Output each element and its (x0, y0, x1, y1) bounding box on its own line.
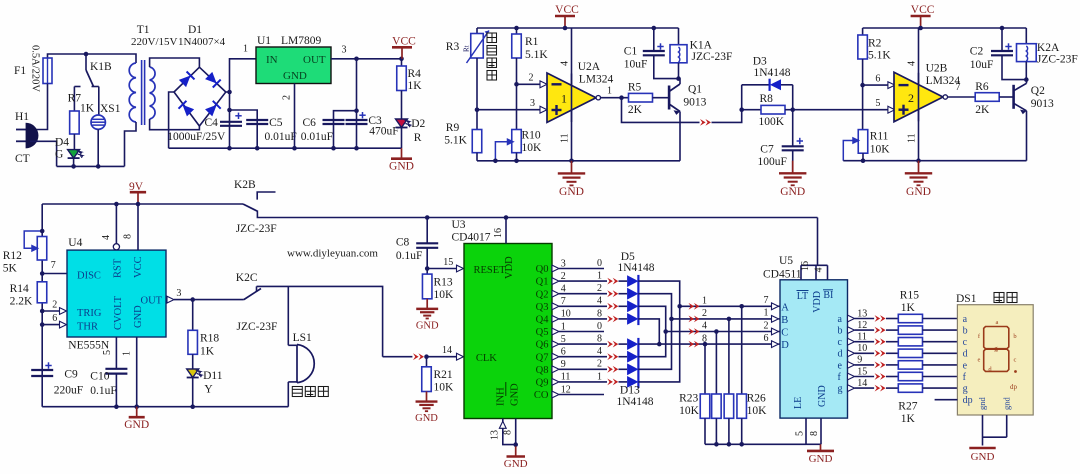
ground GND (555 module) (136, 407, 138, 418)
ground GND (module 1) (571, 161, 573, 174)
svg-text:1: 1 (561, 321, 566, 332)
svg-text:JZC-23F: JZC-23F (692, 51, 733, 63)
svg-text:g: g (838, 384, 843, 395)
svg-text:R1: R1 (525, 36, 539, 48)
LED D11 (yellow) (187, 369, 199, 378)
svg-text:3: 3 (342, 45, 347, 56)
svg-text:Rt: Rt (463, 45, 471, 52)
transformer T1 core (141, 60, 143, 125)
wire: B row (672, 318, 772, 320)
svg-text:CVOLT: CVOLT (113, 295, 124, 330)
svg-text:G: G (55, 149, 63, 161)
bridge diode bottom-left (179, 101, 195, 117)
node: OUT / R4 / VCC (399, 57, 404, 62)
wire: CLK into U3 (427, 356, 457, 358)
relay contact K2C (244, 289, 261, 300)
svg-text:1K: 1K (80, 103, 95, 115)
svg-text:4: 4 (101, 235, 112, 240)
resistor R14 2.2K (37, 282, 47, 303)
bridge diode top-right (205, 72, 221, 88)
svg-text:11: 11 (857, 332, 867, 343)
svg-text:12: 12 (857, 320, 867, 331)
svg-text:4: 4 (597, 346, 602, 357)
capacitor C7 100uF (792, 110, 794, 147)
svg-text:R26: R26 (747, 393, 766, 405)
node: XS1 branch / bus (96, 164, 101, 169)
power VCC (regulator output) (401, 47, 403, 59)
svg-text:4: 4 (597, 296, 602, 307)
resistor R7 1K (70, 111, 80, 134)
wire: pulldown common to U5 ground (705, 443, 806, 445)
svg-text:12: 12 (561, 384, 571, 395)
svg-text:C5: C5 (269, 117, 283, 129)
svg-text:0.1uF: 0.1uF (396, 250, 423, 262)
svg-text:C7: C7 (760, 144, 774, 156)
svg-text:4: 4 (560, 61, 571, 66)
svg-text:8: 8 (597, 308, 602, 319)
svg-text:CT: CT (15, 153, 30, 165)
svg-text:10K: 10K (434, 382, 455, 394)
svg-text:Q7: Q7 (536, 352, 549, 363)
svg-text:R2: R2 (868, 38, 882, 50)
wire: Q1/Q9 to A column (638, 281, 679, 382)
wire: Q3/Q7 to C column (638, 306, 665, 356)
svg-text:INH: INH (496, 387, 507, 406)
potentiometer R11 10K (858, 130, 868, 154)
svg-text:Q9: Q9 (536, 378, 549, 389)
svg-text:9: 9 (561, 359, 566, 370)
svg-text:7: 7 (561, 296, 566, 307)
svg-text:g: g (963, 384, 968, 395)
transistor Q2 9013 (1012, 85, 1015, 109)
svg-text:2K: 2K (975, 104, 990, 116)
svg-text:1N4148: 1N4148 (618, 262, 655, 274)
svg-text:K2C: K2C (236, 272, 258, 284)
svg-text:10: 10 (561, 309, 571, 320)
svg-text:JZC-23F: JZC-23F (1037, 54, 1078, 66)
wire: RST pin with bubble (115, 204, 117, 244)
wire: link to U2B +input (793, 109, 889, 111)
svg-text:1: 1 (561, 92, 567, 106)
capacitor C9 220uF (31, 369, 53, 371)
svg-text:10K: 10K (679, 405, 700, 417)
wire: D row (Q6) (638, 343, 771, 345)
svg-text:C9: C9 (64, 369, 78, 381)
svg-text:R5: R5 (628, 82, 642, 94)
wire: XS1 to bus (97, 129, 99, 166)
node: OUT / R18 (190, 297, 195, 302)
svg-text:e: e (838, 360, 843, 371)
node: RESET (425, 266, 430, 271)
wire: -input U2A (517, 83, 542, 85)
wire: CVOLT pin to C10 (115, 337, 117, 369)
svg-text:b: b (963, 326, 968, 337)
wire: primary bottom lead (125, 122, 137, 166)
svg-text:1K: 1K (200, 346, 215, 358)
wire: GND pin 1 (136, 337, 138, 407)
node: D4 branch / bus (71, 164, 76, 169)
svg-text:1: 1 (702, 296, 707, 307)
node: -input A (514, 82, 519, 87)
wire: C6 branch (334, 111, 357, 149)
svg-text:4: 4 (702, 321, 707, 332)
svg-text:D2: D2 (411, 118, 425, 130)
svg-text:JZC-23F: JZC-23F (237, 321, 278, 333)
diode D3 1N4148 (742, 84, 770, 86)
wire: 9V rail (42, 203, 243, 205)
wire: R4 to D2 (401, 91, 403, 120)
svg-text:C4: C4 (205, 117, 219, 129)
svg-text:RESET: RESET (474, 265, 507, 276)
resistor R21 10K (426, 357, 428, 367)
svg-text:www.diyleyuan.com: www.diyleyuan.com (287, 248, 378, 260)
bridge diode bottom-right (205, 101, 221, 117)
wire: C4 branch (229, 92, 231, 148)
svg-text:VDD: VDD (812, 291, 823, 313)
svg-text:3: 3 (176, 288, 181, 299)
capacitor C10 0.1uF (105, 368, 127, 370)
svg-text:LM7809: LM7809 (281, 35, 322, 47)
svg-text:Q0: Q0 (536, 264, 549, 275)
svg-text:13: 13 (490, 430, 501, 440)
svg-text:16: 16 (493, 228, 504, 238)
node: link input (739, 107, 744, 112)
ground GND (module 2) (918, 161, 920, 174)
svg-text:GND: GND (817, 385, 828, 407)
svg-text:Q5: Q5 (536, 327, 549, 338)
svg-text:R6: R6 (975, 81, 989, 93)
svg-text:1K: 1K (901, 413, 916, 425)
capacitor C1 10uF (652, 26, 657, 31)
display DS1 (7-seg) (957, 305, 1033, 415)
svg-text:a: a (963, 314, 968, 325)
svg-text:1: 1 (597, 371, 602, 382)
svg-text:LT: LT (797, 291, 808, 302)
svg-text:R21: R21 (434, 369, 453, 381)
svg-text:6: 6 (764, 333, 769, 344)
svg-text:10K: 10K (870, 144, 891, 156)
relay contact K1B (84, 52, 89, 57)
svg-text:CD4017: CD4017 (452, 232, 491, 244)
svg-text:dp: dp (963, 395, 973, 406)
U5 BCD inputs (772, 303, 779, 310)
svg-text:C8: C8 (396, 237, 410, 249)
wire: R6 to Q2 base (999, 96, 1013, 98)
svg-text:Y: Y (204, 384, 213, 396)
resistor R2 5.1K (862, 28, 864, 35)
ground GND (R21) (426, 392, 428, 402)
svg-text:220V/15V: 220V/15V (131, 36, 178, 48)
svg-text:XS1: XS1 (100, 103, 121, 115)
svg-text:8: 8 (809, 431, 820, 436)
wire: bridge minus to ground rail (169, 92, 174, 148)
svg-text:GND: GND (971, 451, 995, 463)
svg-text:5.1K: 5.1K (868, 50, 891, 62)
svg-text:K1B: K1B (90, 61, 112, 73)
op-amp U2B LM324 (894, 72, 943, 121)
wire: U1 GND pin (294, 84, 296, 149)
wire: U2A output (601, 97, 629, 99)
svg-text:2: 2 (702, 308, 707, 319)
svg-text:TRIG: TRIG (77, 308, 102, 319)
svg-text:10uF: 10uF (624, 59, 648, 71)
svg-text:8: 8 (597, 334, 602, 345)
svg-text:8: 8 (123, 234, 134, 239)
svg-text:GND: GND (415, 413, 438, 424)
svg-text:D: D (781, 340, 789, 351)
svg-text:R15: R15 (900, 290, 919, 302)
svg-text:7: 7 (956, 82, 961, 93)
svg-text:DS1: DS1 (956, 293, 977, 305)
wire: module2 VCC bus (863, 27, 1027, 29)
thermistor R3 (476, 28, 478, 34)
wire: AC top bus (48, 54, 137, 63)
wire: dp row (935, 399, 958, 401)
wire: K1B to R7 (73, 87, 75, 112)
red arrows + labels: BCD rows (689, 303, 700, 310)
potentiometer R12 5K (37, 237, 47, 261)
svg-text:9013: 9013 (683, 97, 706, 109)
wire: K2C contact line (257, 286, 383, 356)
svg-text:C1: C1 (624, 46, 638, 58)
svg-text:Q3: Q3 (536, 302, 549, 313)
svg-text:gnd: gnd (977, 397, 987, 411)
resistor R9 5.1K (472, 130, 482, 153)
wire: left rail (41, 204, 43, 407)
svg-text:2: 2 (282, 95, 293, 100)
decoder U5 CD4511 (780, 280, 848, 418)
svg-text:5: 5 (795, 431, 806, 436)
node: link output (790, 107, 795, 112)
node: output A (619, 95, 624, 100)
DS1 seven-segment digit (984, 327, 1009, 372)
wire: K2C to CLK (383, 356, 413, 358)
svg-text:2K: 2K (628, 104, 643, 116)
svg-text:a: a (996, 319, 999, 326)
wire: D4 to bus (73, 158, 75, 166)
svg-text:11: 11 (907, 133, 918, 143)
resistor R1 5.1K (514, 26, 519, 31)
wire: K2B to logic supply (257, 212, 817, 218)
svg-text:Q1: Q1 (688, 84, 702, 96)
svg-text:LM324: LM324 (579, 74, 614, 86)
svg-text:7: 7 (51, 260, 56, 271)
resistor R4 1K (401, 59, 403, 66)
diode array D13 1N4148 (627, 338, 638, 350)
wire: module1 VCC bus (477, 27, 679, 29)
svg-text:0: 0 (597, 258, 602, 269)
svg-text:U5: U5 (779, 255, 793, 267)
wire: D2 to ground (401, 128, 403, 149)
svg-text:e: e (963, 360, 968, 371)
wire: U2B output (948, 96, 976, 98)
ground GND (U3) (515, 446, 517, 456)
wire: R5 to Q1 base (653, 97, 670, 99)
svg-text:10K: 10K (522, 142, 543, 154)
svg-text:C6: C6 (303, 117, 317, 129)
svg-text:0.5A/220V: 0.5A/220V (30, 45, 41, 92)
svg-text:b: b (838, 326, 843, 337)
svg-text:NE555N: NE555N (68, 340, 110, 352)
bridge diode top-left (179, 72, 195, 88)
wire: R7 to D4 (73, 134, 75, 150)
svg-text:Q6: Q6 (536, 340, 549, 351)
svg-text:U4: U4 (68, 237, 82, 249)
svg-text:D1: D1 (188, 24, 202, 36)
regulator U1 LM7809 (256, 47, 331, 84)
svg-text:VCC: VCC (555, 4, 579, 16)
svg-text:D4: D4 (55, 137, 69, 149)
svg-text:2: 2 (597, 359, 602, 370)
svg-text:5.1K: 5.1K (444, 135, 467, 147)
wire: buzzer to rail (287, 382, 289, 407)
svg-text:2: 2 (597, 283, 602, 294)
wire: primary bottom bus (57, 165, 125, 167)
svg-text:2.2K: 2.2K (10, 296, 33, 308)
svg-text:5.1K: 5.1K (525, 49, 548, 61)
svg-text:VCC: VCC (911, 4, 935, 16)
svg-text:g: g (994, 345, 998, 353)
svg-text:GND: GND (559, 186, 584, 198)
node: bridge plus / C4 (227, 90, 232, 95)
svg-text:Q8: Q8 (536, 365, 549, 376)
svg-text:R4: R4 (408, 68, 422, 80)
svg-text:D13: D13 (620, 385, 640, 397)
svg-text:DISC: DISC (77, 271, 101, 282)
wire: DISC (40, 271, 45, 276)
svg-text:4: 4 (814, 268, 825, 273)
wire: TRIG (40, 309, 45, 314)
svg-text:13: 13 (857, 308, 867, 319)
svg-text:1: 1 (243, 44, 248, 55)
svg-text:10K: 10K (747, 405, 768, 417)
wire: U2A power rail (pins 4/11) (571, 28, 573, 161)
svg-text:1N4007×4: 1N4007×4 (178, 36, 226, 48)
svg-text:U1: U1 (257, 35, 271, 47)
svg-text:R8: R8 (760, 93, 774, 105)
node: K1A / collector (676, 76, 681, 81)
svg-text:1K: 1K (408, 80, 423, 92)
ground GND (U5) (820, 444, 822, 451)
svg-text:C2: C2 (970, 46, 984, 58)
wire: module2 ground rail (843, 160, 1026, 162)
svg-text:VCC: VCC (392, 35, 416, 47)
svg-text:BI: BI (823, 290, 833, 301)
svg-text:14: 14 (442, 345, 452, 356)
wire: R3 to R9 (476, 58, 478, 130)
capacitor C8 0.1uF (426, 218, 428, 244)
svg-text:GND: GND (906, 186, 931, 198)
label: common-cathode chinese (gong yin) (994, 293, 1004, 303)
node: +input A (475, 107, 480, 112)
U3 INH/GND pins to ground (503, 419, 516, 445)
svg-text:LS1: LS1 (293, 332, 312, 344)
svg-text:T1: T1 (137, 24, 150, 36)
svg-text:6: 6 (875, 73, 880, 84)
svg-text:K2B: K2B (234, 179, 256, 191)
svg-text:K2A: K2A (1037, 42, 1060, 54)
wire: U1 OUT (331, 58, 402, 60)
svg-text:d: d (963, 349, 968, 360)
wire: plug to bottom bus (30, 141, 57, 166)
wire: link right riser (792, 85, 794, 110)
counter U3 CD4017 (464, 244, 552, 419)
wire: to R18 (192, 300, 194, 331)
svg-text:THR: THR (77, 322, 98, 333)
svg-text:Q4: Q4 (536, 315, 550, 326)
svg-text:c: c (963, 337, 968, 348)
wire: U5 supply jumper LT/VDD/BI (800, 265, 802, 280)
wire: R1 to -input (516, 58, 518, 84)
wire: C5 branch (230, 110, 258, 148)
svg-text:OUT: OUT (141, 296, 163, 307)
relay coil K2A (1025, 28, 1027, 44)
svg-text:2: 2 (764, 320, 769, 331)
capacitor C3 470uF (346, 119, 368, 121)
svg-text:GND: GND (283, 70, 307, 82)
svg-text:1K: 1K (901, 302, 916, 314)
wire: VCC pin (137, 204, 139, 250)
relay contact K2B (243, 204, 258, 212)
svg-text:Q2: Q2 (1031, 85, 1045, 97)
svg-text:GND: GND (133, 305, 144, 328)
svg-text:A: A (781, 302, 789, 313)
svg-text:9013: 9013 (1031, 98, 1054, 110)
wire: D11 to rail (192, 378, 194, 407)
wire: U2B power rail (918, 28, 920, 161)
svg-text:R: R (414, 132, 422, 144)
svg-text:d: d (838, 349, 843, 360)
svg-text:GND: GND (809, 453, 833, 465)
svg-text:R9: R9 (446, 122, 460, 134)
wire: Q2 emitter to rail (1026, 111, 1028, 161)
svg-text:b: b (1013, 333, 1016, 340)
node: CLK / R21 (424, 354, 429, 359)
plug H1 (16, 129, 27, 131)
svg-text:JZC-23F: JZC-23F (236, 223, 277, 235)
svg-text:3: 3 (561, 258, 566, 269)
wire: R2/R11 link (862, 85, 864, 130)
wire: THR (40, 322, 45, 327)
svg-text:Q1: Q1 (536, 277, 549, 288)
potentiometer R10 10K (512, 130, 522, 153)
svg-text:GND: GND (389, 161, 414, 173)
resistor R8 100K (742, 109, 761, 111)
LED D2 (red) (396, 119, 408, 128)
svg-text:10: 10 (857, 343, 867, 354)
wire: feed to D3/R8 (712, 110, 742, 123)
node: -input B (860, 83, 865, 88)
svg-text:9: 9 (857, 355, 862, 366)
svg-text:B: B (781, 315, 788, 326)
op-amp U2A LM324 (547, 73, 596, 122)
svg-text:VDD: VDD (504, 256, 515, 279)
timer U4 NE555N (67, 250, 166, 337)
wire: secondary bottom lead (150, 119, 200, 130)
svg-text:R12: R12 (3, 250, 22, 262)
fuse F1 (43, 58, 52, 84)
svg-text:U3: U3 (452, 219, 466, 231)
wire: +input U2A (477, 109, 541, 111)
transistor Q1 9013 (668, 86, 671, 110)
svg-text:R18: R18 (200, 333, 219, 345)
transformer T1 secondary (150, 67, 155, 119)
wire: secondary top lead (150, 58, 200, 67)
svg-text:R11: R11 (870, 131, 889, 143)
wire: module1 ground rail (477, 160, 680, 162)
resistor R18 1K (188, 330, 198, 354)
wire: RESET to U3 (427, 268, 456, 270)
